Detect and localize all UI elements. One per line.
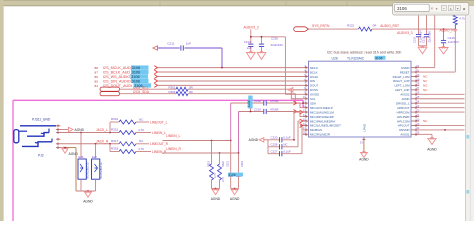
ground AGND jack sleeve xyxy=(61,129,69,131)
svg-text:C220: C220 xyxy=(271,135,278,139)
U26 right pins with names and numbers xyxy=(411,67,419,69)
wire LINEIN_R riser xyxy=(238,112,240,154)
svg-text:MIC1RP/LINE1RP: MIC1RP/LINE1RP xyxy=(310,115,334,119)
svg-text:MIC1LP/LINE1LP: MIC1LP/LINE1LP xyxy=(310,106,333,110)
svg-text:DOUT: DOUT xyxy=(310,84,318,88)
svg-text:AUD/V3_3: AUD/V3_3 xyxy=(397,31,413,35)
svg-text:4.7K: 4.7K xyxy=(222,177,225,182)
wire C211 branch xyxy=(157,47,180,49)
junction LINEIN_R R320 xyxy=(219,152,221,154)
svg-text:R362: R362 xyxy=(169,90,176,94)
svg-text:E27: E27 xyxy=(92,155,97,159)
svg-text:I2C bus slave address: read 3: I2C bus slave address: read 31h and writ… xyxy=(327,51,401,55)
wire C227 riser to MIC3L xyxy=(301,125,303,153)
page right edge / scrollbar xyxy=(466,6,474,227)
resistor R323 4.7k pullup xyxy=(453,15,457,24)
capacitor C219 470NF xyxy=(239,111,264,113)
svg-text:PJ311_GND: PJ311_GND xyxy=(32,118,51,122)
svg-text:▾: ▾ xyxy=(436,7,438,11)
svg-text:AGND: AGND xyxy=(211,197,221,201)
ground AGND under LPAD xyxy=(361,153,368,158)
resistor R322 0R xyxy=(359,27,373,31)
junction JACK_L split xyxy=(109,132,111,134)
esd suppressor E26 xyxy=(78,159,86,179)
svg-text:4.7K: 4.7K xyxy=(138,147,144,151)
net LINEIN_R label xyxy=(136,151,151,153)
svg-text:I2S_MCLK_AUD_: I2S_MCLK_AUD_ xyxy=(103,66,134,70)
svg-text:3106: 3106 xyxy=(131,75,139,79)
capacitor C322 to ground xyxy=(238,153,240,174)
svg-text:HPROUT: HPROUT xyxy=(397,106,409,110)
svg-text:4.7k: 4.7k xyxy=(459,17,465,21)
svg-text:C228: C228 xyxy=(271,142,278,146)
svg-text:I2S_BCLK_AUD_: I2S_BCLK_AUD_ xyxy=(103,71,133,75)
svg-text:AVSS2: AVSS2 xyxy=(400,93,409,97)
svg-text:LINEIN_R: LINEIN_R xyxy=(166,147,181,151)
ground AGND under DVDD caps xyxy=(418,47,427,54)
svg-text:AGND: AGND xyxy=(249,138,259,142)
capacitor C228 NC xyxy=(268,146,279,148)
svg-text:22uF/16V: 22uF/16V xyxy=(271,43,284,47)
resistor R319 4.7K to ground xyxy=(211,141,213,165)
wire LINEIN_L riser xyxy=(230,103,232,141)
svg-text:JACK_L: JACK_L xyxy=(96,128,108,132)
svg-text:NC: NC xyxy=(283,142,287,146)
resistor R318 4.7K xyxy=(119,150,136,154)
junction LINEIN_R C322 xyxy=(238,152,240,154)
svg-text:C322: C322 xyxy=(241,160,244,167)
toolbar strip top (window chrome) xyxy=(0,0,474,6)
svg-text:JACK_R: JACK_R xyxy=(96,139,109,143)
svg-text:AGND: AGND xyxy=(427,147,437,151)
wire jack shield to ESD ground xyxy=(65,147,76,149)
svg-text:DVDD: DVDD xyxy=(401,66,409,70)
svg-text:MCLK: MCLK xyxy=(310,66,318,70)
wire C220 riser to MIC1LM xyxy=(293,112,295,140)
svg-text:3106: 3106 xyxy=(397,6,407,11)
svg-text:AVDD: AVDD xyxy=(402,97,410,101)
junction LINEIN_L R319 xyxy=(211,140,213,142)
wire LINEIN_R rail xyxy=(163,152,239,154)
junction MIC1LP xyxy=(302,102,304,104)
svg-text:I2S_WS_AUDIO_: I2S_WS_AUDIO_ xyxy=(103,75,133,79)
ground AGND under C321 C322 xyxy=(231,190,238,195)
svg-text:AGND: AGND xyxy=(230,197,240,201)
svg-text:U26: U26 xyxy=(332,56,338,60)
svg-text:SDA: SDA xyxy=(310,101,316,105)
svg-text:84: 84 xyxy=(95,84,99,88)
wire RESET riser down to pin xyxy=(454,29,456,72)
svg-text:DRVDD_1: DRVDD_1 xyxy=(396,101,410,105)
svg-text:C219: C219 xyxy=(254,108,261,112)
svg-text:85: 85 xyxy=(95,79,99,83)
svg-text:BCLK: BCLK xyxy=(310,70,318,74)
capacitor C321 to ground xyxy=(230,141,232,174)
capacitor C220 0.1uF xyxy=(268,139,279,141)
wire AUDIO_RST to reset riser xyxy=(372,28,455,30)
ground arrow on DVSS pin xyxy=(288,88,293,92)
net LINEOUT_R label xyxy=(136,143,149,145)
svg-text:R320: R320 xyxy=(222,160,225,167)
wire branch to LINEOUT_R xyxy=(109,144,111,152)
junction JACK_L ESD xyxy=(80,132,82,134)
resistor R317 NC on JACK_R xyxy=(119,142,136,146)
search highlight on part number 3106 xyxy=(375,56,386,60)
svg-text:NUP2105LT1G: NUP2105LT1G xyxy=(87,162,90,178)
wire SCL jog to U26 SCL pin xyxy=(188,89,303,99)
junction JACK_R ESD xyxy=(95,143,97,145)
svg-text:0.1uF: 0.1uF xyxy=(283,149,291,153)
ground AGND under ESD xyxy=(85,192,92,197)
junction JACK_R split xyxy=(109,143,111,145)
net LINEOUT_L label xyxy=(136,121,149,123)
esd suppressor E27 xyxy=(92,159,100,179)
search highlight between caps xyxy=(228,173,243,177)
svg-text:1uF/16V: 1uF/16V xyxy=(448,40,459,44)
junction power rail C226 xyxy=(261,36,263,38)
ground AGND under C226 xyxy=(257,52,266,59)
wire cap pair ground join xyxy=(231,188,239,190)
capacitor C218 470NF xyxy=(231,102,264,104)
svg-text:▪: ▪ xyxy=(443,7,444,11)
jack pin stubs xyxy=(56,125,61,127)
wire DVDD pin to riser xyxy=(419,67,435,69)
pin 33 LPAD stub at bottom xyxy=(363,137,365,141)
wire branch to LINEOUT_L xyxy=(109,122,111,133)
svg-text:AGND: AGND xyxy=(69,152,79,156)
resistor R361 0R xyxy=(176,87,188,91)
highlighted net wire to MIC1LP xyxy=(13,99,303,101)
svg-text:DIN: DIN xyxy=(310,79,315,83)
wire ESD bottoms to ground xyxy=(80,179,82,191)
svg-text:SYS_RSTN: SYS_RSTN xyxy=(312,24,330,28)
svg-text:AGND: AGND xyxy=(75,128,85,132)
svg-text:AGND: AGND xyxy=(359,158,369,162)
svg-text:MIC2R/LINE2R: MIC2R/LINE2R xyxy=(310,133,330,137)
op-amp U26 codec body (TLV320AIC3106) xyxy=(309,61,412,137)
svg-text:C321: C321 xyxy=(227,160,230,167)
svg-text:RIGHT_LOM: RIGHT_LOM xyxy=(393,75,410,79)
svg-text:3106: 3106 xyxy=(132,71,140,75)
svg-text:3106: 3106 xyxy=(375,56,383,60)
svg-text:LINEIN_L: LINEIN_L xyxy=(166,134,180,138)
wire SYS_RSTN to R322 xyxy=(309,28,359,30)
wires analog outputs to page edge xyxy=(419,93,464,95)
svg-text:NUP2105LT1G: NUP2105LT1G xyxy=(100,162,103,178)
port I2C5 connector xyxy=(100,87,120,91)
wire SDA to resistor xyxy=(120,93,177,95)
wire DRVDD to rail riser xyxy=(419,129,464,131)
net LINEIN_L label xyxy=(136,132,151,134)
svg-text:IOVDD: IOVDD xyxy=(310,93,319,97)
ground AGND under C212 xyxy=(246,52,255,59)
wire LPAD to ground xyxy=(363,141,365,153)
svg-text:R318: R318 xyxy=(111,147,119,151)
capacitor C226 22uF/16V xyxy=(259,43,264,45)
svg-text:LPAD: LPAD xyxy=(363,123,367,131)
svg-text:MICBIAS: MICBIAS xyxy=(310,128,322,132)
capacitor C214 22uF/16V xyxy=(426,15,428,34)
resistor R315 4.7K xyxy=(119,131,136,135)
svg-text:HPLCOM: HPLCOM xyxy=(397,119,410,123)
ground AGND jack detect xyxy=(61,147,66,149)
svg-text:3106: 3106 xyxy=(228,173,235,177)
scrollbar search tick 2 xyxy=(466,190,469,194)
svg-text:HPLPWR: HPLPWR xyxy=(397,115,409,119)
capacitor C211 1uF xyxy=(180,45,182,50)
capacitor C213 0.1uF xyxy=(418,15,420,34)
svg-text:I2S_DIN_AUDIO: I2S_DIN_AUDIO xyxy=(103,79,131,83)
junction LINEIN_L C321 xyxy=(230,140,232,142)
resistor R316 NC xyxy=(119,120,136,124)
svg-text:HPLOUT: HPLOUT xyxy=(398,124,410,128)
search bar panel xyxy=(393,3,469,15)
svg-text:RIGHT_LOP: RIGHT_LOP xyxy=(393,79,409,83)
ground AGND under R319 R320 xyxy=(212,190,219,195)
svg-text:1uF: 1uF xyxy=(247,46,252,50)
svg-text:MIC1LM/LINE1LM: MIC1LM/LINE1LM xyxy=(310,110,334,114)
svg-text:R316: R316 xyxy=(111,117,119,121)
svg-text:MIC1RM/LINE1RM: MIC1RM/LINE1RM xyxy=(310,119,335,123)
wire SCL to resistor xyxy=(120,88,177,90)
net arrow into C211 xyxy=(153,46,158,50)
svg-text:R317: R317 xyxy=(111,139,119,143)
wire power riser to IOVDD pin xyxy=(284,37,286,95)
capacitor C212 1uF xyxy=(248,43,253,45)
svg-text:470NF: 470NF xyxy=(270,99,279,103)
wire AVSS1 to ground xyxy=(419,133,432,135)
capacitor C216 1uF/16V xyxy=(443,29,445,40)
svg-text:470NF: 470NF xyxy=(270,108,279,112)
svg-text:22uF/16V: 22uF/16V xyxy=(427,31,431,43)
svg-text:C211: C211 xyxy=(167,41,174,45)
port SYS_RSTN oval connector xyxy=(294,27,309,32)
U26 left pins with names and numbers xyxy=(303,67,309,69)
connector PJ311 jack body xyxy=(20,125,56,127)
svg-text:HPRCOM: HPRCOM xyxy=(397,110,410,114)
svg-text:PJ2: PJ2 xyxy=(38,154,44,158)
svg-text:C218: C218 xyxy=(254,99,261,103)
svg-text:LINEOUT_L: LINEOUT_L xyxy=(150,120,168,124)
svg-text:R319: R319 xyxy=(207,160,210,167)
svg-text:WCLK: WCLK xyxy=(310,75,318,79)
resistor R362 0R xyxy=(176,92,188,96)
svg-text:86: 86 xyxy=(95,75,99,79)
wire caps join to ground xyxy=(419,45,427,47)
ground AGND under C216 xyxy=(439,48,448,55)
svg-text:R315: R315 xyxy=(111,128,119,132)
svg-text:AUD/V3_3: AUD/V3_3 xyxy=(244,25,259,29)
svg-text:LINEOUT_R: LINEOUT_R xyxy=(150,142,169,146)
wire JACK_R xyxy=(61,143,120,145)
wire LINEIN_L rail xyxy=(163,140,231,142)
ground AGND for AVSS1 xyxy=(428,139,436,145)
svg-text:C215: C215 xyxy=(421,36,425,43)
scrollbar search tick 1 xyxy=(466,135,469,139)
svg-text:LINEIN_L: LINEIN_L xyxy=(152,131,166,135)
svg-text:C226: C226 xyxy=(271,37,278,41)
wire JACK_L xyxy=(61,132,120,134)
svg-text:SCL: SCL xyxy=(310,97,316,101)
svg-text:✕: ✕ xyxy=(463,6,467,11)
svg-text:R322: R322 xyxy=(347,24,355,28)
svg-text:C212: C212 xyxy=(244,40,251,44)
left chrome strip xyxy=(0,0,3,221)
svg-text:4.7K: 4.7K xyxy=(138,128,144,132)
svg-text:AVSS1: AVSS1 xyxy=(400,133,409,137)
svg-text:1uF: 1uF xyxy=(186,41,191,45)
search input field xyxy=(395,4,430,11)
svg-text:0R: 0R xyxy=(189,90,193,94)
svg-text:88: 88 xyxy=(95,66,99,70)
svg-text:MIC3L/LINE3L/MICDET: MIC3L/LINE3L/MICDET xyxy=(310,124,341,128)
hierarchical block border left xyxy=(12,100,14,221)
wire SDA jog to U26 SDA pin xyxy=(188,94,303,104)
junction power rail C212 xyxy=(250,36,252,38)
svg-text:DRVDD: DRVDD xyxy=(399,128,409,132)
svg-text:AGND: AGND xyxy=(83,200,93,204)
junction C220 riser xyxy=(293,139,295,141)
svg-text:3106: 3106 xyxy=(132,66,140,70)
svg-text:4.7K: 4.7K xyxy=(214,173,217,178)
svg-text:87: 87 xyxy=(95,71,99,75)
svg-text:RESET: RESET xyxy=(400,70,410,74)
svg-text:DVSS: DVSS xyxy=(310,88,318,92)
junction AUDIO_RST C216 xyxy=(443,28,445,30)
resistor R320 4.7K to ground xyxy=(219,153,221,164)
junction ESD ground xyxy=(87,190,89,192)
wire mic cap bus xyxy=(267,140,269,154)
svg-text:LEFT_LOP: LEFT_LOP xyxy=(395,88,410,92)
svg-text:LEFT_LOM: LEFT_LOM xyxy=(395,84,411,88)
svg-text:0.1uF: 0.1uF xyxy=(283,135,291,139)
svg-text:AUDIO_RST: AUDIO_RST xyxy=(380,24,399,28)
svg-text:3106: 3106 xyxy=(247,100,251,107)
svg-text:TLV320AIC: TLV320AIC xyxy=(347,56,365,60)
svg-text:C217: C217 xyxy=(413,36,417,43)
capacitor C227 0.1uF xyxy=(268,153,279,155)
vertical net stub with highlight xyxy=(250,96,252,112)
svg-text:3106: 3106 xyxy=(132,79,140,83)
wire C228 riser to MIC1RM xyxy=(297,121,299,147)
svg-text:E26: E26 xyxy=(79,155,84,159)
junction C211 to MCLK xyxy=(221,67,223,69)
wire power rail xyxy=(250,29,252,37)
wire resistor pair ground join xyxy=(212,188,220,190)
svg-text:C227: C227 xyxy=(271,149,278,153)
